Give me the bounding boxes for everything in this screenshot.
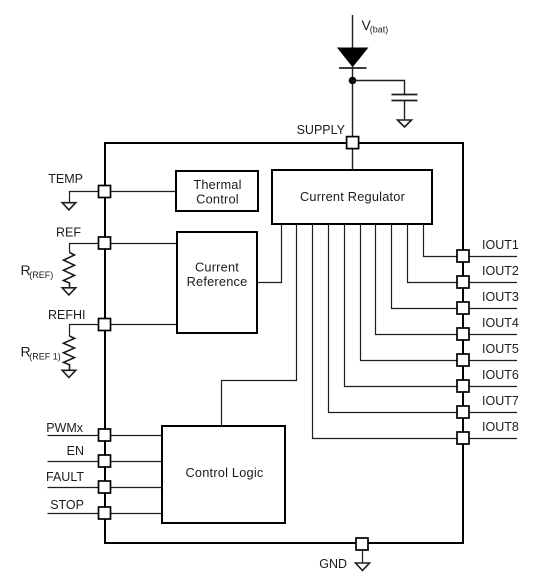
pin IOUT7 [457,394,519,418]
pin FAULT [99,481,111,493]
diode D (reverse-battery protection) [338,48,367,81]
svg-text:(REF): (REF) [29,270,53,280]
wire Current Regulator to IOUT3 [392,224,458,309]
wire EN stub [48,461,99,463]
pin IOUT3 [457,290,519,314]
label R(REF) [21,262,54,280]
ground (TEMP) [62,203,75,210]
wire Current Regulator to IOUT7 [329,224,458,413]
pin IOUT6 [457,368,519,392]
block Current Reference [177,232,257,333]
wire FAULT pin to Control Logic [111,487,162,489]
wire Current Reference to Current Regulator [257,224,282,283]
resistor R(REF) [64,253,75,289]
svg-text:IOUT5: IOUT5 [482,342,519,356]
pin REFHI [99,319,111,331]
node V(bat) supply wire [352,15,354,50]
wire Current Regulator to IOUT2 [408,224,458,283]
wire capacitor to ground [404,101,406,121]
wire TEMP pin to Thermal Control [111,191,176,193]
pin STOP [99,507,111,519]
pin IOUT5 [457,342,519,366]
wire TEMP pin stub and ground [70,192,99,203]
svg-text:IOUT2: IOUT2 [482,264,519,278]
wire REFHI pin stub [70,325,99,337]
pin SUPPLY [347,137,359,149]
wire REF pin to Current Reference [111,243,177,245]
svg-text:IOUT1: IOUT1 [482,238,519,252]
wire SUPPLY pin to Current Regulator [352,149,354,170]
svg-text:Thermal: Thermal [193,177,241,192]
pin IOUT2 [457,264,519,288]
svg-text:IOUT6: IOUT6 [482,368,519,382]
block Thermal Control [176,171,258,211]
wire junction to capacitor [353,81,405,95]
svg-text:EN: EN [67,444,84,458]
wire Current Regulator to IOUT8 [313,224,458,439]
pin IOUT8 [457,420,519,444]
svg-text:Reference: Reference [187,274,248,289]
wire REF pin stub [70,244,99,253]
wire Current Regulator to IOUT1 [424,224,458,257]
wire junction to SUPPLY pin [352,81,354,138]
pin GND [356,538,368,550]
label R(REF1) [21,344,61,362]
svg-text:IOUT7: IOUT7 [482,394,519,408]
wire Current Regulator to IOUT4 [376,224,458,335]
ground (R(REF1)) [62,370,75,377]
svg-text:REFHI: REFHI [48,308,86,322]
wire PWMx stub [48,435,99,437]
wire PWMx pin to Control Logic [111,435,162,437]
wire FAULT stub [48,487,99,489]
pin EN [99,455,111,467]
wire STOP pin to Control Logic [111,513,162,515]
pin REF [99,237,111,249]
pin PWMx [99,429,111,441]
block Current Regulator [272,170,432,224]
svg-text:GND: GND [319,557,347,571]
svg-text:IOUT4: IOUT4 [482,316,519,330]
ground (capacitor) [398,120,412,127]
block Control Logic [162,426,285,523]
svg-text:TEMP: TEMP [48,172,83,186]
svg-text:PWMx: PWMx [46,421,84,435]
ground (R(REF)) [62,288,75,295]
svg-text:SUPPLY: SUPPLY [297,123,346,137]
wire EN pin to Control Logic [111,461,162,463]
wire REFHI pin to Current Reference [111,324,177,326]
wire Current Regulator to IOUT6 [345,224,458,387]
pin IOUT4 [457,316,519,340]
node junction dot [349,77,357,85]
resistor R(REF1) [64,336,75,371]
pin TEMP [99,186,111,198]
svg-text:FAULT: FAULT [46,470,84,484]
wire Current Regulator to IOUT5 [361,224,458,361]
svg-text:STOP: STOP [50,498,84,512]
IC boundary block [105,143,463,543]
label V(bat) [362,17,389,35]
svg-text:(bat): (bat) [370,25,389,35]
svg-text:Current Regulator: Current Regulator [300,189,406,204]
capacitor C (supply bypass) [392,95,418,101]
ground (GND) [356,563,370,571]
svg-text:IOUT3: IOUT3 [482,290,519,304]
wire GND pin to ground [362,550,364,563]
wire Current Regulator to Control Logic [222,224,297,426]
svg-text:REF: REF [56,226,81,240]
wire STOP stub [48,513,99,515]
svg-text:(REF 1): (REF 1) [29,351,61,361]
svg-text:Control: Control [196,192,239,207]
svg-text:Control Logic: Control Logic [185,465,263,480]
pin IOUT1 [457,238,519,262]
svg-text:Current: Current [195,260,239,275]
svg-text:IOUT8: IOUT8 [482,420,519,434]
